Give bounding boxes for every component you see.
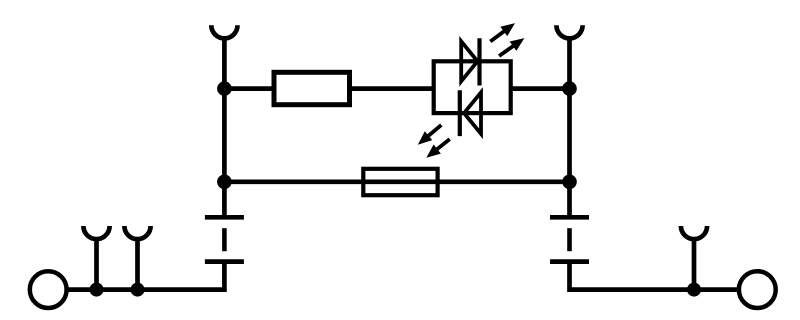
- junction node F (bottom left rail, X4): [131, 283, 145, 297]
- resistor R1: [274, 72, 350, 104]
- wire (top-right socket stem down to node B): [567, 38, 572, 91]
- socket terminal X2 (top right plug contact): [556, 25, 582, 38]
- socket terminal X3 (bottom left plug contact 1): [83, 226, 109, 290]
- LED light arrow (D2, lower ray, pointing SW): [426, 139, 449, 158]
- LED light arrow (D1, upper-left ray, pointing NE): [490, 23, 515, 41]
- wire (left column from node A down to disconnect): [222, 89, 227, 218]
- junction node B (top rail right): [562, 81, 577, 96]
- LED D1 (upper, anode left, pointing right): [461, 38, 479, 85]
- LED light arrow (D1, lower-right ray, pointing NE): [499, 38, 524, 56]
- wire (top rail from node A to node B through R1 and LED box): [224, 86, 569, 91]
- test socket P2 (bottom right circle terminal): [739, 271, 776, 308]
- test socket P1 (bottom left circle terminal): [30, 271, 67, 308]
- socket terminal X1 (top left plug contact): [211, 25, 237, 38]
- fuse F1: [363, 169, 437, 195]
- wire (bottom left rail: disconnect down and left to test socket): [48, 262, 224, 290]
- junction node A (top rail left): [217, 81, 232, 96]
- LED D2 (lower, anode right, pointing left): [460, 90, 481, 136]
- LED indicator U1 (body box, anti-parallel LEDs): [434, 61, 511, 113]
- junction node E (bottom left rail, X3): [90, 283, 104, 297]
- junction node D (middle rail right): [562, 175, 577, 190]
- junction node C (middle rail left): [217, 175, 232, 190]
- socket terminal X4 (bottom left plug contact 2): [124, 226, 150, 290]
- socket terminal X5 (bottom right plug contact): [681, 226, 707, 290]
- junction node G (bottom right rail, X5): [687, 283, 701, 297]
- wire (top-left socket stem down to node A): [222, 38, 227, 91]
- wire (right column from node B down to disconnect): [567, 89, 572, 218]
- LED light arrow (D2, upper ray, pointing SW): [418, 125, 442, 145]
- wire (bottom right rail: disconnect down and right to test socket): [570, 262, 758, 290]
- wire (middle rail from node C to node D through fuse): [224, 179, 569, 184]
- disconnect point S1 (left isolating distance): [205, 217, 244, 261]
- disconnect point S2 (right isolating distance): [550, 217, 589, 261]
